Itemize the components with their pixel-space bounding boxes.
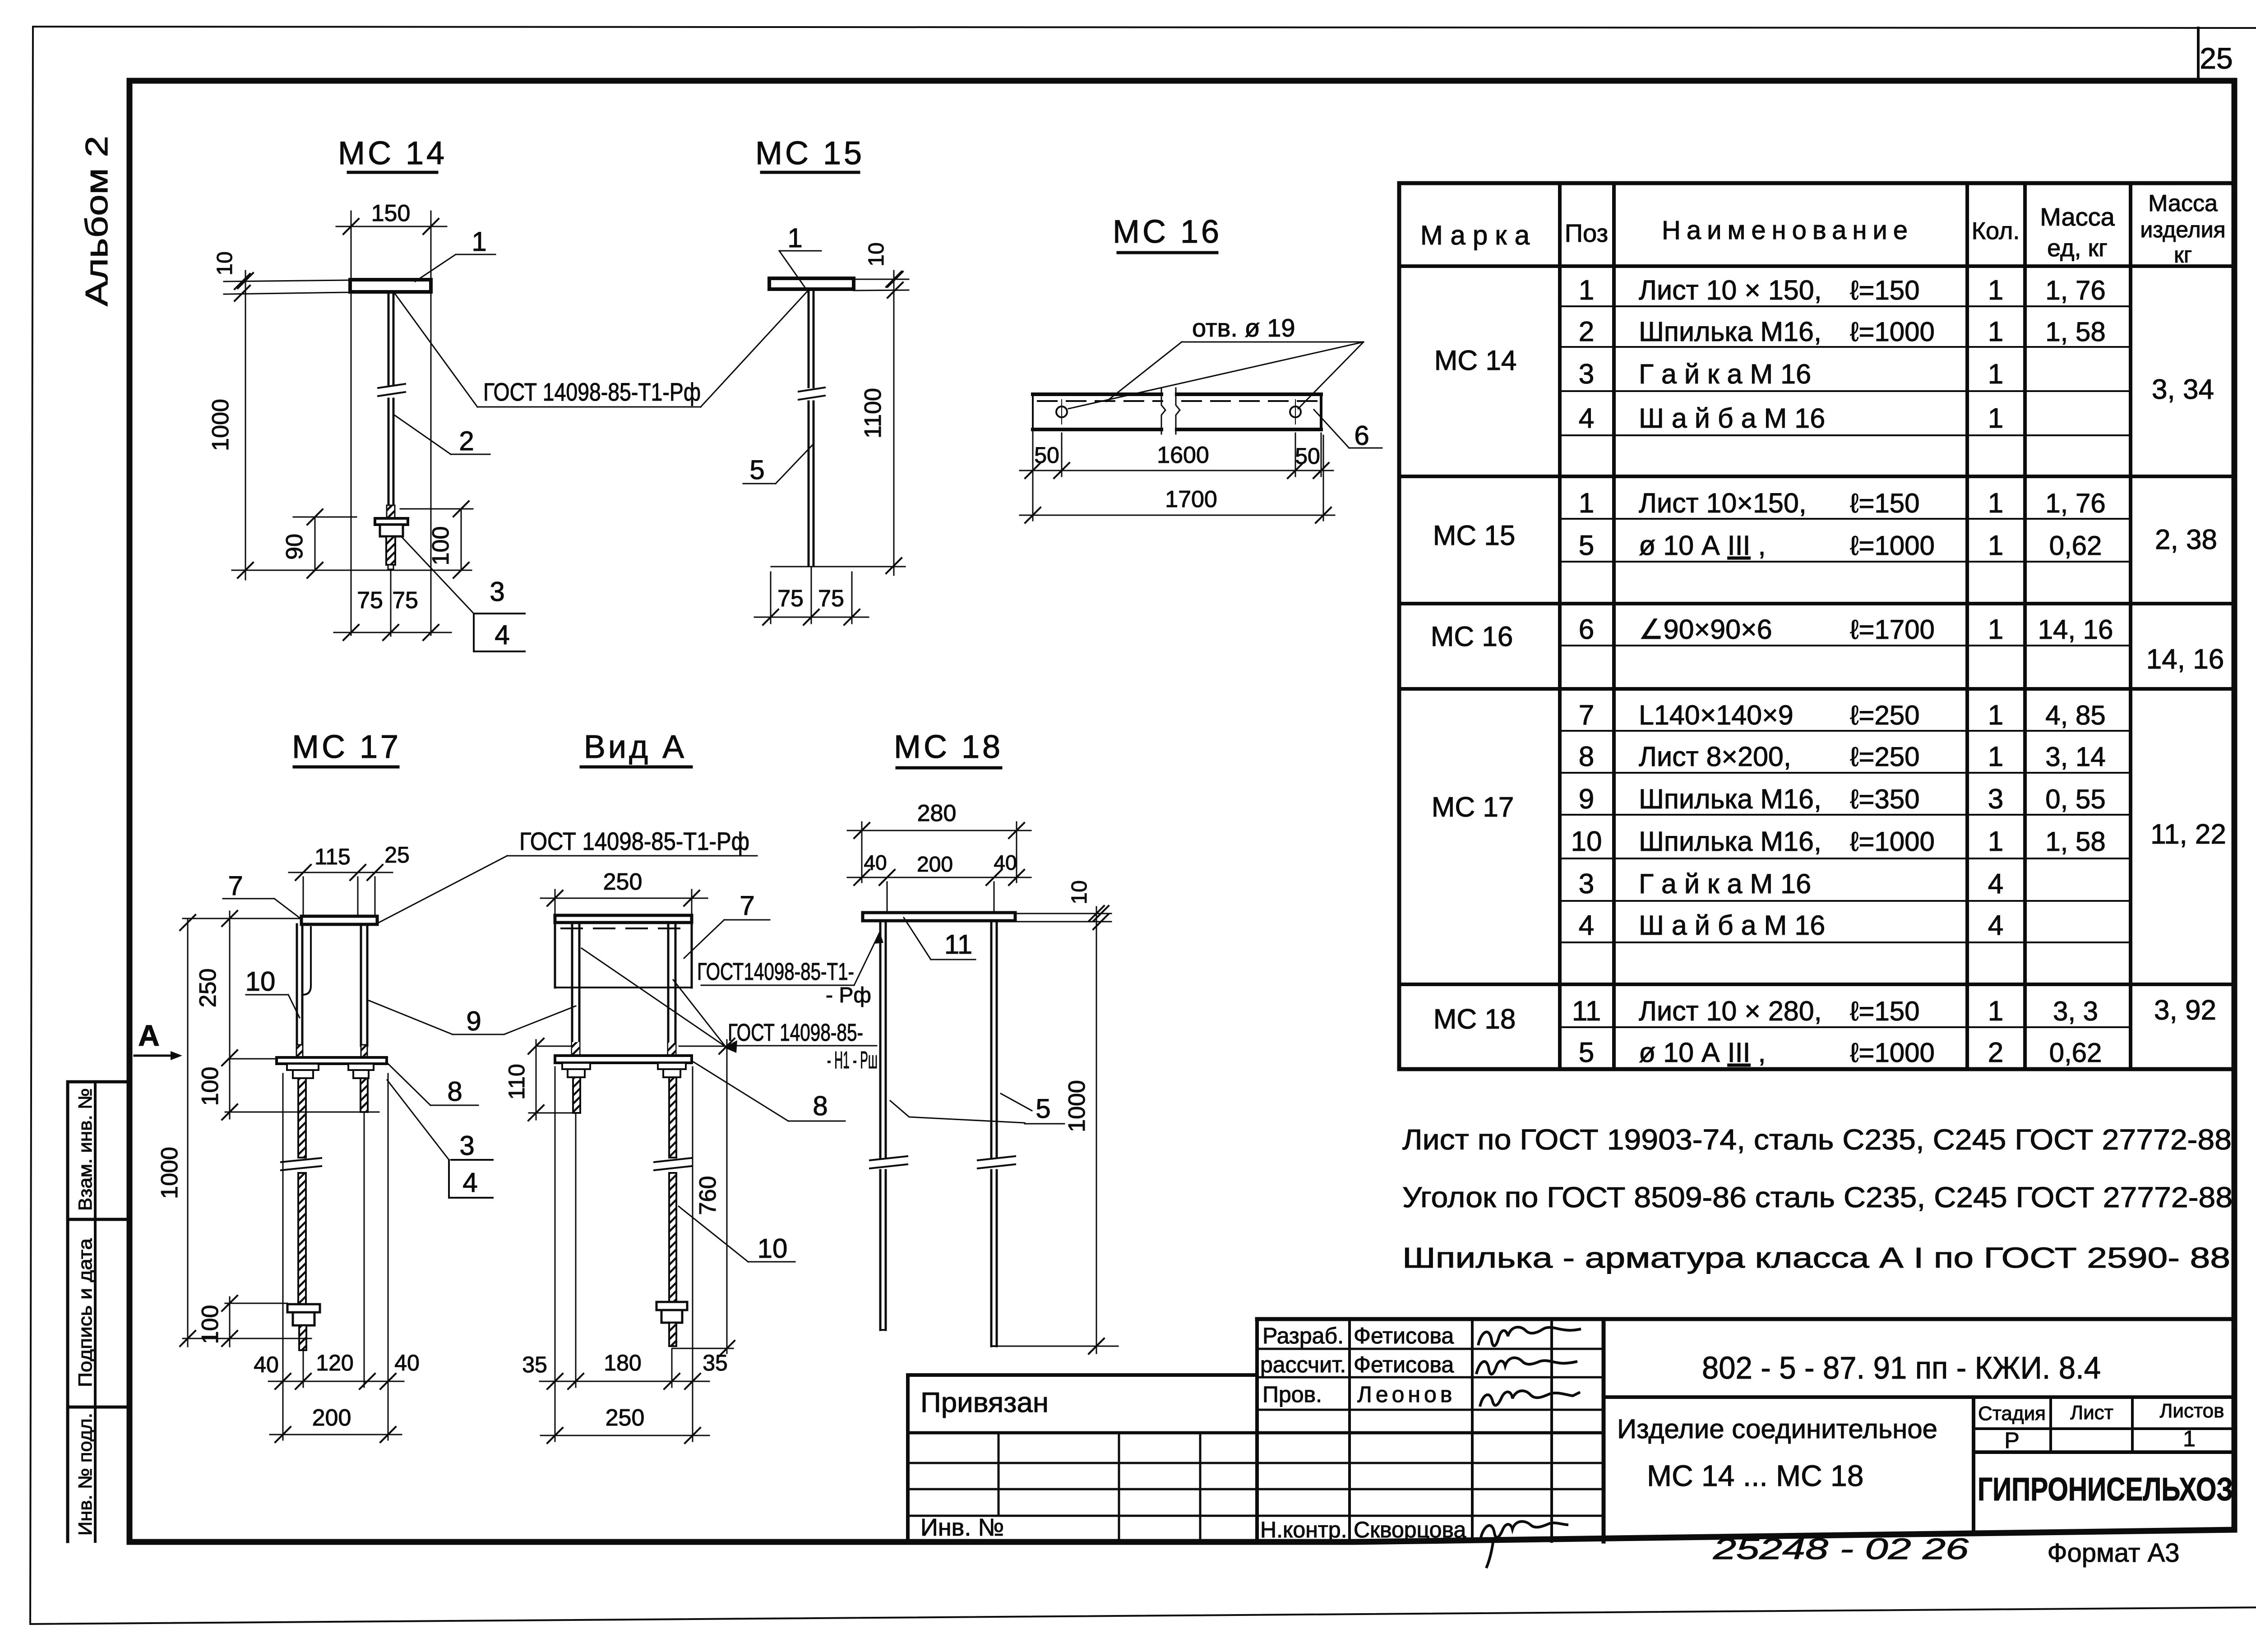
svg-text:Масса: Масса bbox=[2148, 190, 2218, 217]
svg-text:10: 10 bbox=[1571, 826, 1602, 857]
MC17 short stud tip right bbox=[361, 1078, 368, 1112]
left margin label table bbox=[66, 1082, 69, 1541]
svg-text:ℓ=1000: ℓ=1000 bbox=[1850, 531, 1935, 561]
svg-text:760: 760 bbox=[695, 1176, 721, 1215]
svg-text:40: 40 bbox=[254, 1352, 279, 1377]
svg-text:Привязан: Привязан bbox=[920, 1387, 1049, 1418]
svg-text:ед, кг: ед, кг bbox=[2047, 235, 2108, 262]
svg-text:1: 1 bbox=[1988, 614, 2003, 645]
svg-text:Лист 10×150,: Лист 10×150, bbox=[1639, 488, 1807, 518]
svg-text:МС 16: МС 16 bbox=[1431, 621, 1513, 652]
svg-text:2: 2 bbox=[1988, 1037, 2003, 1068]
MC18 rod right item 5 bbox=[990, 921, 993, 1158]
svg-text:МС 14: МС 14 bbox=[338, 135, 447, 171]
svg-text:120: 120 bbox=[316, 1350, 353, 1375]
MC17 dim 1000 bbox=[187, 918, 189, 1347]
svg-text:кг: кг bbox=[2174, 242, 2192, 268]
svg-text:ГОСТ 14098-85-: ГОСТ 14098-85- bbox=[728, 1019, 863, 1046]
svg-text:3: 3 bbox=[490, 577, 504, 607]
MC17 bent stud item 10 upper bbox=[296, 924, 298, 1046]
svg-text:3: 3 bbox=[1579, 868, 1594, 900]
MC17 dim 40 120 40 bbox=[282, 1074, 284, 1387]
svg-text:25: 25 bbox=[2200, 42, 2233, 75]
svg-text:6: 6 bbox=[1579, 614, 1594, 645]
svg-text:9: 9 bbox=[1579, 784, 1594, 815]
MC18 dim 10 bbox=[1015, 913, 1111, 914]
svg-text:Г а й к а М 16: Г а й к а М 16 bbox=[1639, 359, 1811, 389]
svg-text:8: 8 bbox=[813, 1091, 828, 1121]
MC17 dim 200 bbox=[282, 1387, 284, 1440]
MC16 dim 1700 bbox=[1323, 435, 1324, 521]
svg-text:Альбом 2: Альбом 2 bbox=[79, 136, 114, 306]
title block: main stamp bbox=[1604, 1395, 2234, 1399]
svg-text:11: 11 bbox=[1572, 996, 1601, 1027]
svg-text:1: 1 bbox=[1988, 488, 2003, 519]
svg-text:МС 17: МС 17 bbox=[1432, 792, 1514, 823]
svg-text:35: 35 bbox=[703, 1350, 728, 1375]
svg-text:1, 58: 1, 58 bbox=[2045, 317, 2105, 347]
svg-text:25248 - 02 26: 25248 - 02 26 bbox=[1713, 1532, 1969, 1565]
svg-text:ℓ=150: ℓ=150 bbox=[1850, 488, 1920, 518]
svg-text:7: 7 bbox=[228, 871, 243, 901]
svg-text:200: 200 bbox=[312, 1405, 351, 1431]
MC14 dim 100 bbox=[400, 508, 473, 510]
svg-text:Лист 10 × 150,: Лист 10 × 150, bbox=[1639, 275, 1822, 305]
svg-text:4: 4 bbox=[1988, 910, 2003, 941]
svg-text:Уголок по ГОСТ 8509-86 ста: Уголок по ГОСТ 8509-86 сталь С235, С245 … bbox=[1402, 1181, 2233, 1214]
view A dim 110 bbox=[538, 1046, 572, 1047]
svg-text:10: 10 bbox=[1068, 880, 1091, 904]
svg-text:40: 40 bbox=[394, 1350, 420, 1375]
svg-text:100: 100 bbox=[197, 1067, 223, 1106]
svg-text:Наименование: Наименование bbox=[1662, 216, 1914, 245]
svg-text:Лист 10 × 280,: Лист 10 × 280, bbox=[1639, 996, 1822, 1026]
svg-text:Скворцова: Скворцова bbox=[1354, 1517, 1466, 1542]
svg-text:Вид А: Вид А bbox=[584, 729, 687, 765]
svg-text:35: 35 bbox=[522, 1352, 547, 1377]
svg-text:L140×140×9: L140×140×9 bbox=[1639, 700, 1794, 730]
svg-text:Ш а й б а М 16: Ш а й б а М 16 bbox=[1639, 403, 1825, 434]
svg-text:1: 1 bbox=[1579, 488, 1594, 519]
MC14 rod threads above washer bbox=[387, 505, 395, 518]
svg-text:3: 3 bbox=[459, 1131, 474, 1161]
svg-text:75: 75 bbox=[818, 586, 844, 612]
svg-text:3: 3 bbox=[1579, 359, 1594, 390]
svg-text:1: 1 bbox=[1988, 530, 2003, 561]
svg-text:25: 25 bbox=[384, 842, 410, 868]
MC17 angle vertical leg bbox=[360, 924, 362, 1046]
svg-text:40: 40 bbox=[864, 851, 887, 874]
view A right stud item 10 bbox=[669, 1077, 676, 1158]
svg-text:115: 115 bbox=[314, 844, 351, 869]
MC15 plate item 1 bbox=[769, 278, 854, 289]
view A washer plate item 8 bbox=[555, 1056, 692, 1063]
svg-text:1000: 1000 bbox=[157, 1147, 183, 1199]
svg-text:Ш а й б а М 16: Ш а й б а М 16 bbox=[1639, 910, 1825, 941]
svg-text:75: 75 bbox=[357, 587, 383, 614]
svg-text:0, 55: 0, 55 bbox=[2045, 784, 2105, 814]
svg-text:50: 50 bbox=[1034, 443, 1059, 468]
svg-text:отв. ø 19: отв. ø 19 bbox=[1192, 314, 1295, 342]
MC17 long stud below bbox=[298, 1078, 306, 1158]
svg-text:ℓ=1000: ℓ=1000 bbox=[1850, 1038, 1935, 1068]
svg-text:Разраб.: Разраб. bbox=[1262, 1323, 1344, 1348]
svg-text:200: 200 bbox=[917, 853, 953, 877]
svg-text:14, 16: 14, 16 bbox=[2146, 644, 2224, 675]
svg-text:1: 1 bbox=[2183, 1426, 2196, 1451]
svg-text:4, 85: 4, 85 bbox=[2045, 700, 2105, 730]
svg-text:Шпилька М16,: Шпилька М16, bbox=[1639, 316, 1821, 347]
svg-text:10: 10 bbox=[758, 1233, 788, 1264]
svg-text:ℓ=250: ℓ=250 bbox=[1850, 700, 1920, 730]
view A left stud tip bbox=[573, 1077, 580, 1113]
MC15 label 5 leader bbox=[743, 483, 776, 485]
svg-text:1: 1 bbox=[1988, 403, 2003, 434]
svg-text:Поз: Поз bbox=[1565, 219, 1608, 247]
svg-text:10: 10 bbox=[213, 251, 237, 275]
view A nuts bbox=[562, 1063, 590, 1069]
svg-text:10: 10 bbox=[864, 242, 888, 266]
svg-text:Инв. № подл.: Инв. № подл. bbox=[74, 1413, 96, 1536]
svg-text:1: 1 bbox=[1988, 700, 2003, 731]
view A angle face item 7 bbox=[555, 915, 692, 923]
view A dim 250 bottom bbox=[541, 1435, 709, 1436]
MC16 dim 50 1600 50 bbox=[1061, 433, 1063, 476]
MC18 dim 280 bbox=[861, 822, 863, 882]
svg-text:Подпись и дата: Подпись и дата bbox=[74, 1238, 96, 1387]
MC15 rod item 5 bbox=[808, 289, 810, 387]
svg-text:11: 11 bbox=[944, 929, 972, 960]
svg-text:Стадия: Стадия bbox=[1978, 1403, 2046, 1425]
svg-text:Шпилька М16,: Шпилька М16, bbox=[1639, 784, 1821, 814]
svg-text:5: 5 bbox=[1036, 1094, 1050, 1124]
svg-text:Р: Р bbox=[2004, 1428, 2019, 1453]
svg-text:180: 180 bbox=[604, 1350, 641, 1375]
MC15 bottom extension bbox=[771, 566, 905, 568]
svg-text:50: 50 bbox=[1295, 443, 1320, 469]
MC15 dim 10 bbox=[854, 279, 909, 280]
svg-text:1700: 1700 bbox=[1165, 486, 1217, 512]
svg-text:3: 3 bbox=[1988, 784, 2003, 815]
MC14 dim 10 bbox=[224, 280, 350, 281]
svg-text:Н.контр.: Н.контр. bbox=[1260, 1517, 1347, 1542]
svg-text:А: А bbox=[138, 1019, 160, 1052]
MC18 dim 1000 bbox=[1096, 907, 1097, 1353]
svg-text:75: 75 bbox=[392, 587, 418, 614]
svg-text:1000: 1000 bbox=[208, 399, 234, 451]
svg-text:90: 90 bbox=[282, 534, 308, 560]
MC17 bottom extension bbox=[183, 1338, 311, 1339]
svg-text:5: 5 bbox=[749, 455, 764, 485]
svg-text:1600: 1600 bbox=[1157, 442, 1209, 468]
svg-text:Изделие соединительное: Изделие соединительное bbox=[1617, 1414, 1937, 1444]
MC14 dim 75 75 bbox=[334, 632, 451, 633]
MC14 washer item 4 bbox=[375, 518, 408, 525]
view A dim 760 bbox=[679, 1046, 733, 1047]
svg-text:ℓ=250: ℓ=250 bbox=[1850, 742, 1920, 772]
svg-text:ℓ=150: ℓ=150 bbox=[1850, 275, 1920, 305]
svg-text:1: 1 bbox=[1988, 275, 2003, 306]
MC18 dim 40 200 40 bbox=[887, 882, 888, 914]
svg-text:2: 2 bbox=[1579, 316, 1594, 347]
svg-text:Леонов: Леонов bbox=[1357, 1382, 1456, 1407]
svg-text:ℓ=1000: ℓ=1000 bbox=[1850, 317, 1935, 347]
svg-text:1, 76: 1, 76 bbox=[2045, 275, 2105, 305]
svg-text:14, 16: 14, 16 bbox=[2038, 614, 2113, 645]
svg-text:1: 1 bbox=[472, 226, 486, 257]
MC18 rod left item 5 bbox=[879, 921, 882, 1158]
svg-text:3, 14: 3, 14 bbox=[2045, 742, 2105, 772]
MC17 washer plate item 8 bbox=[277, 1057, 387, 1064]
svg-text:МС 17: МС 17 bbox=[292, 729, 401, 765]
MC14 bottom extension bbox=[232, 570, 472, 571]
svg-text:1: 1 bbox=[1579, 275, 1594, 306]
svg-text:1000: 1000 bbox=[1064, 1080, 1090, 1132]
svg-text:изделия: изделия bbox=[2140, 217, 2225, 242]
svg-text:МС 14 ... МС 18: МС 14 ... МС 18 bbox=[1647, 1459, 1863, 1492]
view A dim 35 180 35 bbox=[555, 1067, 556, 1441]
svg-text:4: 4 bbox=[1579, 403, 1594, 434]
MC17 angle item 7 top plate bbox=[301, 916, 377, 924]
svg-text:ГОСТ 14098-85-Т1-Рф: ГОСТ 14098-85-Т1-Рф bbox=[483, 378, 701, 406]
svg-text:МС 14: МС 14 bbox=[1434, 345, 1517, 376]
svg-text:250: 250 bbox=[603, 869, 643, 895]
svg-text:1: 1 bbox=[1988, 316, 2003, 347]
svg-text:802 - 5 - 87. 91 пп - КЖИ. 8.: 802 - 5 - 87. 91 пп - КЖИ. 8.4 bbox=[1702, 1350, 2101, 1385]
svg-text:Инв. №: Инв. № bbox=[920, 1514, 1004, 1541]
svg-text:Масса: Масса bbox=[2040, 203, 2115, 231]
page number box 25 bbox=[2197, 28, 2200, 81]
svg-text:11, 22: 11, 22 bbox=[2150, 819, 2226, 850]
MC14 label 1 leader bbox=[415, 254, 495, 281]
svg-text:ø 10 А III ,: ø 10 А III , bbox=[1639, 1037, 1766, 1068]
svg-text:5: 5 bbox=[1579, 1037, 1594, 1068]
svg-text:2: 2 bbox=[459, 426, 474, 456]
svg-text:Лист по ГОСТ 19903-74, сталь: Лист по ГОСТ 19903-74, сталь С235, С245 … bbox=[1402, 1123, 2232, 1156]
svg-text:ГИПРОНИСЕЛЬХОЗ: ГИПРОНИСЕЛЬХОЗ bbox=[1978, 1472, 2233, 1508]
svg-text:Пров.: Пров. bbox=[1262, 1382, 1322, 1407]
svg-text:1: 1 bbox=[1988, 741, 2003, 772]
svg-text:1: 1 bbox=[1988, 359, 2003, 390]
MC17 lower washer and nut bbox=[287, 1304, 320, 1312]
MC17 dim 250 bbox=[183, 918, 301, 919]
svg-text:ГОСТ 14098-85-Т1-Рф: ГОСТ 14098-85-Т1-Рф bbox=[519, 827, 749, 855]
MC17 dim 100 lower bbox=[225, 1303, 287, 1304]
svg-text:Формат А3: Формат А3 bbox=[2047, 1538, 2179, 1568]
svg-text:10: 10 bbox=[245, 966, 276, 997]
svg-text:4: 4 bbox=[495, 620, 509, 650]
svg-text:40: 40 bbox=[994, 851, 1017, 874]
MC17 stud threads above washer bbox=[296, 1045, 303, 1057]
svg-text:8: 8 bbox=[447, 1076, 462, 1107]
svg-text:4: 4 bbox=[1988, 868, 2003, 900]
svg-text:∠90×90×6: ∠90×90×6 bbox=[1639, 614, 1772, 645]
svg-text:рассчит.: рассчит. bbox=[1260, 1352, 1346, 1377]
MC15 dim 1100 bbox=[893, 271, 895, 575]
MC14 dim 150 bbox=[336, 226, 447, 227]
svg-text:75: 75 bbox=[777, 586, 804, 612]
svg-text:ГОСТ14098-85-Т1-: ГОСТ14098-85-Т1- bbox=[697, 958, 854, 985]
svg-text:Листов: Листов bbox=[2160, 1400, 2224, 1422]
svg-text:6: 6 bbox=[1354, 420, 1369, 451]
svg-text:Г а й к а М 16: Г а й к а М 16 bbox=[1639, 868, 1811, 899]
svg-text:ℓ=1700: ℓ=1700 bbox=[1850, 614, 1935, 645]
view A lower washer nut bbox=[656, 1302, 687, 1310]
svg-text:Шпилька - арматура класса: Шпилька - арматура класса А I по ГОСТ 25… bbox=[1402, 1241, 2230, 1274]
svg-text:Фетисова: Фетисова bbox=[1354, 1352, 1454, 1377]
svg-text:Лист: Лист bbox=[2070, 1402, 2113, 1424]
MC14 rod item 2 bbox=[388, 292, 390, 384]
svg-text:7: 7 bbox=[740, 891, 754, 921]
svg-text:ø 10 А III ,: ø 10 А III , bbox=[1639, 530, 1766, 561]
svg-text:5: 5 bbox=[1579, 530, 1594, 561]
view A dim 250 top bbox=[555, 890, 556, 915]
svg-text:1: 1 bbox=[1988, 826, 2003, 857]
svg-text:ℓ=350: ℓ=350 bbox=[1850, 784, 1920, 814]
svg-text:9: 9 bbox=[466, 1006, 481, 1036]
title block: bottom-left table bbox=[908, 1373, 1257, 1377]
svg-text:0,62: 0,62 bbox=[2049, 1038, 2102, 1068]
svg-text:ℓ=1000: ℓ=1000 bbox=[1850, 826, 1935, 857]
MC15 label 1 leader bbox=[779, 250, 821, 252]
MC14 label 2 leader bbox=[451, 454, 490, 455]
MC18 bottom extension bbox=[998, 1346, 1118, 1347]
svg-text:4: 4 bbox=[1579, 910, 1594, 941]
MC17 dim 100 upper bbox=[229, 1058, 231, 1119]
svg-text:110: 110 bbox=[504, 1064, 529, 1100]
svg-text:МС 15: МС 15 bbox=[1433, 520, 1516, 551]
svg-text:Взам. инв. №: Взам. инв. № bbox=[74, 1088, 96, 1211]
MC14 dim 90 bbox=[293, 517, 356, 518]
svg-text:100: 100 bbox=[428, 526, 454, 566]
MC16 hole left bbox=[1056, 406, 1067, 417]
MC18 plate item 11 bbox=[863, 913, 1015, 921]
svg-text:1: 1 bbox=[787, 223, 802, 253]
svg-text:250: 250 bbox=[606, 1405, 645, 1431]
svg-text:250: 250 bbox=[195, 969, 221, 1008]
svg-text:7: 7 bbox=[1579, 700, 1594, 731]
svg-text:150: 150 bbox=[371, 200, 411, 226]
svg-text:Кол.: Кол. bbox=[1972, 217, 2020, 245]
svg-text:МС 15: МС 15 bbox=[755, 135, 864, 171]
parts table grid bbox=[1399, 181, 2234, 185]
svg-text:Марка: Марка bbox=[1420, 220, 1537, 250]
title block: signature table bbox=[1257, 1317, 2234, 1321]
MC16 break symbol bbox=[1163, 391, 1175, 433]
svg-text:1, 58: 1, 58 bbox=[2045, 826, 2105, 857]
svg-text:- Рф: - Рф bbox=[826, 983, 871, 1007]
svg-text:Фетисова: Фетисова bbox=[1354, 1323, 1454, 1348]
signatures bbox=[1478, 1327, 1581, 1346]
MC14 dim 1000 bbox=[245, 271, 246, 580]
svg-text:МС 16: МС 16 bbox=[1113, 214, 1222, 250]
svg-text:3, 3: 3, 3 bbox=[2053, 996, 2098, 1026]
svg-text:- Н1 - Рш: - Н1 - Рш bbox=[827, 1047, 878, 1074]
MC17 nuts under plate bbox=[287, 1064, 319, 1070]
MC14 plate item 1 bbox=[350, 280, 431, 292]
svg-text:МС 18: МС 18 bbox=[1433, 1004, 1516, 1035]
MC15 dim 75 75 bbox=[754, 617, 869, 618]
MC14 nut item 3 bbox=[380, 525, 403, 536]
MC16 angle bar item 6 bbox=[1033, 392, 1321, 396]
svg-text:4: 4 bbox=[462, 1167, 477, 1198]
MC17 labels 3 4 bbox=[451, 1159, 493, 1161]
svg-text:1: 1 bbox=[1988, 996, 2003, 1027]
svg-text:3, 92: 3, 92 bbox=[2154, 995, 2216, 1026]
svg-text:МС 18: МС 18 bbox=[894, 729, 1003, 765]
svg-text:Шпилька М16,: Шпилька М16, bbox=[1639, 826, 1821, 857]
svg-text:280: 280 bbox=[917, 800, 957, 826]
svg-text:ℓ=150: ℓ=150 bbox=[1850, 996, 1920, 1026]
svg-text:0,62: 0,62 bbox=[2049, 531, 2102, 561]
svg-text:1100: 1100 bbox=[860, 388, 886, 438]
MC14 labels 3 4 bbox=[474, 613, 525, 614]
MC17 dim 115 25 bbox=[303, 877, 304, 916]
MC14 threaded tip bbox=[386, 536, 395, 565]
svg-text:3, 34: 3, 34 bbox=[2152, 374, 2214, 405]
MC16 hole right bbox=[1290, 406, 1301, 417]
view A studs bbox=[571, 923, 573, 1056]
svg-text:1, 76: 1, 76 bbox=[2045, 488, 2105, 518]
MC14 extension lines bbox=[351, 211, 352, 635]
svg-text:2, 38: 2, 38 bbox=[2155, 524, 2217, 555]
svg-text:Лист 8×200,: Лист 8×200, bbox=[1639, 741, 1791, 772]
svg-text:8: 8 bbox=[1579, 741, 1594, 772]
